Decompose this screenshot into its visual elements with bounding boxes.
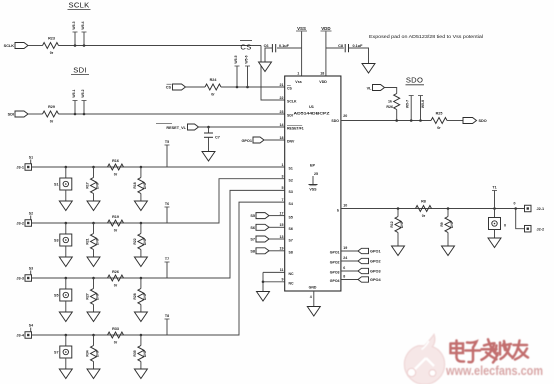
- ground: [87, 257, 100, 267]
- svg-text:S8: S8: [250, 249, 255, 253]
- resistor R23 0r: [43, 43, 59, 49]
- testpoint: [494, 209, 496, 218]
- svg-text:S6: S6: [250, 226, 255, 230]
- svg-text:S8: S8: [289, 251, 293, 255]
- svg-text:1k: 1k: [388, 100, 392, 104]
- svg-text:18: 18: [320, 71, 324, 75]
- svg-text:21: 21: [280, 83, 284, 87]
- svg-text:R16: R16: [112, 159, 119, 163]
- svg-text:AD5144DBCPZ: AD5144DBCPZ: [294, 111, 331, 115]
- svg-text:GPO4: GPO4: [330, 279, 340, 283]
- testpoint S3: [65, 222, 68, 225]
- jumper stub W5-3: [74, 32, 76, 46]
- svg-text:SDO: SDO: [406, 75, 423, 84]
- wire: [326, 47, 344, 49]
- svg-text:0r: 0r: [114, 284, 118, 288]
- svg-text:CS: CS: [240, 43, 251, 52]
- resistor R22 DNP: [140, 222, 143, 225]
- svg-text:R34: R34: [86, 350, 90, 356]
- svg-text:S3: S3: [289, 190, 293, 194]
- svg-text:1: 1: [282, 163, 284, 167]
- svg-text:DNP: DNP: [96, 181, 100, 189]
- resistor R25 0r: [431, 118, 447, 124]
- resistor R26 1k pullup: [394, 94, 400, 110]
- resistor R34 DNP: [92, 334, 95, 337]
- resistor R18 DNP: [140, 166, 143, 169]
- wire NC pins: [263, 271, 285, 273]
- wire VDD down to U1 pin 18 top: [325, 32, 327, 77]
- svg-text:0r: 0r: [114, 173, 118, 177]
- svg-text:R18: R18: [133, 182, 137, 188]
- svg-text:VSS: VSS: [309, 188, 317, 192]
- svg-text:3: 3: [282, 175, 284, 179]
- svg-text:U1: U1: [309, 104, 315, 109]
- resistor R12 DNP: [397, 209, 399, 217]
- svg-text:R28: R28: [133, 293, 137, 299]
- svg-text:R26: R26: [112, 270, 119, 274]
- svg-text:R22: R22: [133, 238, 137, 244]
- svg-text:R8: R8: [421, 199, 426, 203]
- wire: [269, 250, 285, 252]
- jumper stub W5-5: [236, 66, 238, 87]
- resistor R35 DNP: [140, 334, 143, 337]
- svg-text:C6: C6: [264, 44, 269, 48]
- node T8: [166, 319, 168, 335]
- svg-text:17: 17: [280, 211, 284, 215]
- svg-text:J2-1: J2-1: [537, 207, 545, 211]
- svg-text:DNP: DNP: [96, 237, 100, 245]
- svg-text:S7: S7: [54, 351, 59, 355]
- svg-text:T5: T5: [165, 140, 169, 144]
- ground: [87, 369, 100, 379]
- watermark text: [451, 339, 529, 362]
- svg-text:18: 18: [280, 136, 284, 140]
- svg-text:SDI: SDI: [287, 114, 293, 118]
- svg-text:SCLK: SCLK: [68, 0, 89, 9]
- svg-text:DNP: DNP: [400, 220, 404, 228]
- svg-text:0r: 0r: [114, 229, 118, 233]
- resistor R29 0r: [43, 111, 59, 117]
- svg-text:1: 1: [297, 71, 299, 75]
- svg-text:DNP: DNP: [450, 220, 454, 228]
- resistor R8 0r: [416, 206, 432, 212]
- svg-text:R33: R33: [112, 327, 119, 331]
- svg-text:NC: NC: [289, 272, 295, 276]
- svg-text:7: 7: [282, 198, 284, 202]
- svg-text:W5-6: W5-6: [245, 55, 249, 63]
- resistor R16 0r: [108, 164, 124, 170]
- ground: [202, 152, 215, 162]
- node T5: [166, 145, 168, 167]
- svg-text:S3: S3: [54, 239, 59, 243]
- svg-text:22: 22: [280, 96, 284, 100]
- svg-text:NC: NC: [289, 281, 295, 285]
- ground: [392, 246, 405, 256]
- ground: [59, 201, 72, 211]
- svg-text:10: 10: [343, 203, 347, 207]
- wire SCLK to U1 pin 22: [261, 46, 285, 101]
- svg-text:8: 8: [343, 275, 345, 279]
- svg-text:SDI: SDI: [73, 65, 87, 74]
- svg-text:R19: R19: [112, 215, 119, 219]
- svg-text:VL: VL: [367, 86, 373, 90]
- ground: [87, 312, 100, 322]
- wire: [269, 215, 285, 217]
- svg-text:11: 11: [280, 268, 284, 272]
- svg-text:C8: C8: [338, 44, 343, 48]
- wire VSS to U1 pin 1: [301, 32, 303, 77]
- wire SDO from U1 pin 20: [341, 120, 431, 122]
- jumper stub W5-4: [83, 32, 85, 46]
- svg-text:SDO: SDO: [331, 119, 339, 123]
- svg-text:S7: S7: [250, 238, 255, 242]
- svg-text:S1: S1: [54, 183, 59, 187]
- wire: [186, 86, 206, 88]
- resistor R17 DNP: [92, 166, 95, 169]
- svg-text:J3-2: J3-2: [16, 222, 24, 226]
- svg-text:0r: 0r: [422, 214, 426, 218]
- svg-text:EP: EP: [310, 164, 316, 168]
- svg-text:GPO1: GPO1: [241, 139, 252, 143]
- wire SCLK net: [59, 45, 262, 47]
- svg-text:19: 19: [280, 247, 284, 251]
- wire: [32, 190, 285, 278]
- svg-text:VSS: VSS: [297, 26, 306, 31]
- svg-text:W5-7: W5-7: [405, 100, 409, 108]
- svg-text:CS: CS: [166, 86, 172, 90]
- svg-text:R24: R24: [210, 78, 218, 82]
- resistor R24 0r: [205, 84, 221, 90]
- svg-text:SDO: SDO: [479, 119, 487, 123]
- ground: [87, 201, 100, 211]
- node T1: [494, 191, 496, 209]
- svg-text:23: 23: [280, 110, 284, 114]
- svg-text:S3: S3: [29, 266, 33, 270]
- svg-text:S1: S1: [29, 155, 33, 159]
- wire: [28, 113, 43, 115]
- svg-text:14: 14: [280, 123, 284, 127]
- svg-text:J2-2: J2-2: [537, 227, 545, 231]
- svg-text:DNP: DNP: [143, 292, 147, 300]
- svg-text:Vss: Vss: [295, 80, 301, 84]
- port GPO4 output: [358, 277, 369, 282]
- ground: [307, 307, 320, 317]
- jumper stub W5-7: [410, 96, 412, 121]
- wire SDI to U1 pin 23: [59, 113, 285, 115]
- node T6: [166, 207, 168, 223]
- svg-text:5: 5: [282, 186, 284, 190]
- capacitor C8 0.1uF: [344, 44, 346, 52]
- svg-text:9: 9: [282, 278, 284, 282]
- svg-text:0.1uF: 0.1uF: [353, 44, 364, 48]
- svg-text:SCLK: SCLK: [4, 44, 15, 48]
- svg-text:13: 13: [280, 235, 284, 239]
- svg-text:R9: R9: [440, 222, 444, 226]
- svg-text:GPO3: GPO3: [330, 271, 340, 275]
- svg-text:VDD: VDD: [321, 26, 330, 31]
- svg-text:SDI: SDI: [8, 113, 14, 117]
- svg-text:R12: R12: [390, 221, 394, 227]
- svg-text:0.1uF: 0.1uF: [279, 44, 290, 48]
- capacitor C7: [208, 127, 210, 133]
- wire: [277, 47, 302, 49]
- port SDO: [463, 118, 477, 124]
- svg-text:S5: S5: [54, 294, 59, 298]
- connector J2-1: [525, 205, 532, 212]
- svg-text:R26: R26: [386, 105, 393, 109]
- svg-text:24: 24: [343, 256, 347, 260]
- resistor R9 DNP: [447, 209, 449, 217]
- connector J2-2: [525, 225, 532, 232]
- svg-text:J3-4: J3-4: [16, 334, 24, 338]
- svg-text:0: 0: [514, 201, 516, 205]
- wire: [32, 202, 285, 335]
- wire CS to U1 pin 21: [221, 86, 285, 88]
- svg-text:www.elecfans.com: www.elecfans.com: [445, 363, 543, 378]
- svg-text:S4: S4: [29, 323, 33, 327]
- svg-text:W5-3: W5-3: [72, 21, 76, 29]
- testpoint S7: [65, 334, 68, 337]
- svg-text:6: 6: [343, 266, 345, 270]
- resistor R19 0r: [108, 220, 124, 226]
- svg-text:DNP: DNP: [143, 349, 147, 357]
- testpoint S1: [65, 166, 68, 169]
- svg-text:S7: S7: [289, 239, 293, 243]
- resistor R21 DNP: [92, 222, 95, 225]
- wire GPO1: [341, 250, 358, 252]
- wire W1 net from U1 pin 10: [341, 208, 525, 210]
- wire: [447, 120, 463, 122]
- svg-text:GPO4: GPO4: [370, 278, 381, 282]
- svg-text:W5-8: W5-8: [421, 100, 425, 108]
- wire: [349, 48, 369, 64]
- ground: [257, 292, 270, 302]
- testpoint S5: [65, 277, 68, 280]
- node S2: [30, 216, 32, 220]
- jumper stub W5-6: [247, 66, 249, 87]
- svg-text:S5: S5: [250, 214, 255, 218]
- svg-text:Exposed pad on AD5123/28 tied: Exposed pad on AD5123/28 tied to Vss pot…: [369, 34, 483, 39]
- wire: [32, 166, 285, 168]
- port GPO1 output: [358, 248, 369, 253]
- svg-text:RESET_VL: RESET_VL: [166, 126, 186, 130]
- svg-text:0r: 0r: [211, 92, 215, 96]
- svg-text:19: 19: [343, 246, 347, 250]
- svg-text:DNV: DNV: [287, 140, 295, 144]
- svg-text:GPO3: GPO3: [370, 270, 381, 274]
- svg-text:T8: T8: [165, 314, 169, 318]
- svg-text:CS: CS: [287, 87, 293, 91]
- svg-text:GPO2: GPO2: [370, 260, 381, 264]
- svg-text:J3-1: J3-1: [16, 166, 24, 170]
- svg-text:T1: T1: [492, 186, 496, 190]
- port GPO3 output: [358, 268, 369, 273]
- svg-text:T6: T6: [165, 202, 169, 206]
- svg-text:S2: S2: [29, 211, 33, 215]
- node S1: [30, 160, 32, 164]
- svg-text:0r: 0r: [50, 119, 54, 123]
- svg-text:0: 0: [504, 224, 506, 228]
- resistor R33 0r: [108, 332, 124, 338]
- svg-text:DNP: DNP: [143, 237, 147, 245]
- op IC U1 AD5144DBCPZ body: [285, 76, 341, 291]
- svg-text:b: b: [337, 208, 339, 212]
- svg-text:R35: R35: [133, 350, 137, 356]
- svg-text:S4: S4: [289, 202, 293, 206]
- svg-text:R23: R23: [48, 36, 55, 40]
- ground: [488, 238, 501, 248]
- svg-text:W5-1: W5-1: [72, 89, 76, 97]
- svg-text:R27: R27: [86, 293, 90, 299]
- wire RESET to U1 pin 14: [199, 126, 285, 128]
- svg-text:VDD: VDD: [319, 80, 327, 84]
- svg-text:0r: 0r: [114, 341, 118, 345]
- svg-text:0r: 0r: [50, 51, 54, 55]
- svg-text:DNP: DNP: [96, 292, 100, 300]
- wire GPO2: [341, 260, 358, 262]
- svg-text:S6: S6: [289, 227, 293, 231]
- jumper stub W5-1: [74, 101, 76, 115]
- wire: [516, 209, 525, 229]
- resistor R27 DNP: [92, 277, 95, 280]
- wire GPO3: [341, 270, 358, 272]
- svg-text:GPO1: GPO1: [330, 251, 340, 255]
- svg-text:S2: S2: [289, 178, 293, 182]
- ground: [362, 64, 375, 74]
- wire to U1 pin 18: [264, 139, 285, 141]
- jumper stub W5-2: [83, 101, 85, 115]
- svg-text:GPO1: GPO1: [370, 250, 381, 254]
- wire VL pullup: [385, 88, 397, 94]
- svg-text:0r: 0r: [437, 126, 441, 130]
- svg-text:J3-3: J3-3: [16, 277, 24, 281]
- wire GND pin 4: [313, 291, 315, 307]
- svg-text:W5-2: W5-2: [81, 89, 85, 97]
- ground: [59, 369, 72, 379]
- svg-text:R25: R25: [436, 111, 443, 115]
- ground: [134, 201, 147, 211]
- ground: [134, 312, 147, 322]
- svg-text:DNP: DNP: [96, 349, 100, 357]
- ground: [134, 257, 147, 267]
- svg-text:SCLK: SCLK: [287, 100, 297, 104]
- resistor R28 DNP: [140, 277, 143, 280]
- ground: [134, 369, 147, 379]
- svg-text:S5: S5: [289, 215, 293, 219]
- svg-text:W5-4: W5-4: [81, 21, 85, 29]
- node S4: [30, 328, 32, 332]
- resistor R26 0r: [108, 275, 124, 281]
- node S3: [30, 271, 32, 275]
- watermark logo: [404, 335, 444, 384]
- svg-text:GPO2: GPO2: [330, 261, 340, 265]
- wire: [269, 226, 285, 228]
- svg-text:GND: GND: [309, 286, 317, 290]
- ground: [59, 312, 72, 322]
- wire: [32, 179, 285, 223]
- svg-text:C7: C7: [215, 135, 220, 139]
- svg-text:RESET/F1: RESET/F1: [287, 127, 304, 131]
- wire: [269, 238, 285, 240]
- svg-text:DNP: DNP: [143, 181, 147, 189]
- jumper stub W5-8: [420, 96, 422, 121]
- port GPO2 output: [358, 258, 369, 263]
- svg-text:20: 20: [343, 114, 347, 118]
- svg-text:S1: S1: [289, 167, 293, 171]
- svg-text:15: 15: [280, 223, 284, 227]
- wire: [265, 48, 272, 62]
- svg-text:R17: R17: [86, 182, 90, 188]
- node T7: [166, 262, 168, 278]
- capacitor C6 0.1uF: [275, 44, 277, 52]
- svg-text:25: 25: [314, 172, 318, 176]
- wire GPO4: [341, 279, 358, 281]
- svg-text:R21: R21: [86, 238, 90, 244]
- wire: [28, 45, 43, 47]
- svg-text:T7: T7: [165, 257, 169, 261]
- ground: [59, 257, 72, 267]
- svg-text:W5-5: W5-5: [234, 55, 238, 63]
- ground: [259, 62, 272, 72]
- ground: [442, 246, 455, 256]
- svg-text:R29: R29: [48, 105, 55, 109]
- svg-text:4: 4: [310, 295, 312, 299]
